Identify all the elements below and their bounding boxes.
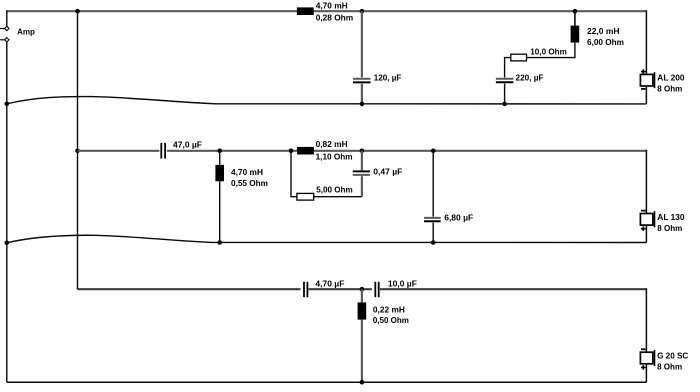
svg-text:4,70 mH: 4,70 mH [316, 1, 348, 11]
node: 120uF / return rail junction [360, 102, 365, 107]
node: bottom branch / 0.22mH junction [360, 287, 365, 292]
label L5 value [373, 305, 409, 325]
node: 220uF / return rail junction [502, 102, 507, 107]
inductor L1 4.70mH (top, horizontal) [297, 7, 314, 15]
inductor L5 0.22mH (vertical) [358, 302, 367, 319]
svg-text:6,00 Ohm: 6,00 Ohm [587, 37, 624, 47]
resistor R2 5.00 Ohm [297, 193, 314, 200]
inductor L2 22.0mH (vertical) [571, 26, 580, 43]
capacitor C1 120uF (shunt) [353, 79, 371, 83]
capacitor C3 47.0uF (series) [161, 143, 165, 159]
speaker U3 G 20 SC [640, 349, 654, 369]
svg-text:G 20 SC: G 20 SC [657, 350, 689, 360]
svg-text:0,47 µF: 0,47 µF [373, 166, 402, 176]
svg-text:47,0 µF: 47,0 µF [173, 139, 202, 149]
node: bus/top rail junction [75, 9, 80, 14]
svg-text:8 Ohm: 8 Ohm [657, 223, 682, 233]
wire: bus corner into bottom branch [77, 288, 79, 289]
capacitor C2 220uF (shunt) [496, 79, 513, 82]
wire: resistor to 220uF corner [505, 58, 511, 78]
wire: 220uF lower leg [504, 84, 506, 104]
label C3 value [173, 139, 202, 149]
wire: G20SC feed vertical [645, 288, 647, 352]
svg-text:220, µF: 220, µF [516, 73, 544, 83]
wire: amp left vertical + stubs [0, 10, 7, 382]
label C1 value [374, 73, 402, 83]
wire: 22mH lower stub + to resistor [527, 43, 575, 58]
capacitor C4 0.47uF (in loop) [353, 171, 370, 175]
svg-text:120, µF: 120, µF [374, 73, 402, 83]
node: mid rail / 4.7mH junction [217, 149, 222, 154]
svg-text:5,00 Ohm: 5,00 Ohm [316, 184, 353, 194]
wire: 4.7mH lower leg [219, 181, 221, 242]
label C5 value [444, 213, 473, 223]
resistor R1 10.0 Ohm [511, 54, 527, 61]
svg-text:0,22 mH: 0,22 mH [373, 305, 405, 315]
wire: loop bottom right segment [314, 196, 362, 198]
wire: AL200 feed vertical [645, 10, 647, 74]
label Amp [17, 27, 35, 37]
svg-text:22,0 mH: 22,0 mH [587, 26, 620, 36]
wire: loop left leg + bottom to resistor [291, 151, 297, 197]
svg-text:8 Ohm: 8 Ohm [657, 362, 682, 372]
svg-text:4,70 µF: 4,70 µF [315, 278, 344, 288]
label C4 value [373, 166, 402, 176]
wire: 4.7mH upper leg [219, 151, 221, 165]
wire: G20SC return vertical [645, 364, 647, 383]
wire: top return rail (wavy then straight) [7, 97, 647, 104]
wire: loop right leg upper (gray) [361, 151, 363, 171]
label L4 value [316, 139, 353, 161]
label C6 value [315, 278, 344, 288]
capacitor C6 4.70uF (series) [301, 282, 309, 297]
node: mid rail / 6.8uF junction [431, 149, 436, 154]
label C2 value [516, 73, 544, 83]
wire: bottom return rail [7, 381, 647, 383]
label R1 value [530, 47, 567, 57]
svg-text:10,0 µF: 10,0 µF [388, 278, 417, 288]
wire: 120uF leg upper (gray) [361, 11, 363, 77]
wire: 0.22mH upper leg (gray) [361, 289, 363, 302]
node: amp - / mid return junction [5, 241, 10, 246]
svg-text:1,10 Ohm: 1,10 Ohm [316, 151, 353, 161]
wire: 120uF leg lower (gray) [361, 84, 363, 104]
wire: 0.22mH lower leg (gray) [361, 320, 363, 383]
node: top rail / 120uF junction [360, 9, 365, 14]
svg-text:6,80 µF: 6,80 µF [444, 213, 473, 223]
wire: top rail (amp + to AL200), gray [7, 10, 647, 12]
wire: mid return rail (wavy then straight) [7, 235, 647, 243]
node: 0.22mH / bottom return junction [360, 380, 365, 385]
wire: loop right leg lower (gray) [361, 176, 363, 197]
svg-text:0,82 mH: 0,82 mH [316, 139, 348, 149]
wire: AL130 feed vertical [645, 150, 647, 214]
inductor L3 4.70mH (vertical) [215, 165, 224, 181]
capacitor C5 6.80uF (shunt) [424, 218, 441, 221]
node: amp - / top return junction [5, 102, 10, 107]
label U2 [657, 212, 684, 233]
svg-text:0,55 Ohm: 0,55 Ohm [231, 178, 268, 188]
label U1 [657, 73, 684, 94]
wire: 22mH upper stub [574, 11, 576, 25]
svg-text:AL 200: AL 200 [657, 73, 684, 83]
wire: main bus vertical x=77.5 [77, 11, 79, 289]
svg-text:AL 130: AL 130 [657, 212, 684, 222]
svg-text:0,28 Ohm: 0,28 Ohm [316, 13, 354, 23]
wire: mid rail segment after C3 (gray) [167, 150, 647, 152]
wire: bottom branch rail (dark gray) [78, 288, 647, 290]
label R2 value [316, 184, 353, 194]
svg-text:4,70 mH: 4,70 mH [231, 167, 263, 177]
amp terminal - (diamond) [5, 38, 9, 42]
label L2 value [587, 26, 624, 47]
wire: AL130 return vertical [645, 225, 647, 242]
node: mid rail / RL loop right junction [360, 149, 365, 154]
svg-text:10,0 Ohm: 10,0 Ohm [530, 47, 567, 57]
svg-text:0,50 Ohm: 0,50 Ohm [373, 315, 409, 325]
capacitor C7 10.0uF (series) [372, 282, 380, 297]
node: top rail / 22mH junction [573, 9, 578, 14]
node: 4.7mH / mid return junction [217, 240, 222, 245]
speaker U1 AL 200 [640, 69, 654, 89]
label U3 [657, 350, 689, 371]
speaker U2 AL 130 [640, 211, 654, 231]
node: 6.8uF / mid return junction [431, 240, 436, 245]
svg-text:Amp: Amp [17, 27, 35, 37]
wire: 6.8uF upper leg [432, 151, 434, 217]
wire: AL200 return vertical [645, 86, 647, 104]
inductor L4 0.82mH (horizontal) [297, 147, 314, 155]
wire: mid rail left segment (gray) [78, 150, 160, 152]
label C7 value [388, 278, 417, 288]
wire: 6.8uF lower leg [432, 223, 434, 243]
node: mid rail / RL loop left junction [289, 149, 294, 154]
svg-text:8 Ohm: 8 Ohm [657, 84, 682, 94]
node: bus / mid rail junction [75, 149, 80, 154]
label L1 value [316, 1, 354, 23]
amp terminal + (diamond) [5, 26, 9, 30]
label L3 value [231, 167, 268, 188]
